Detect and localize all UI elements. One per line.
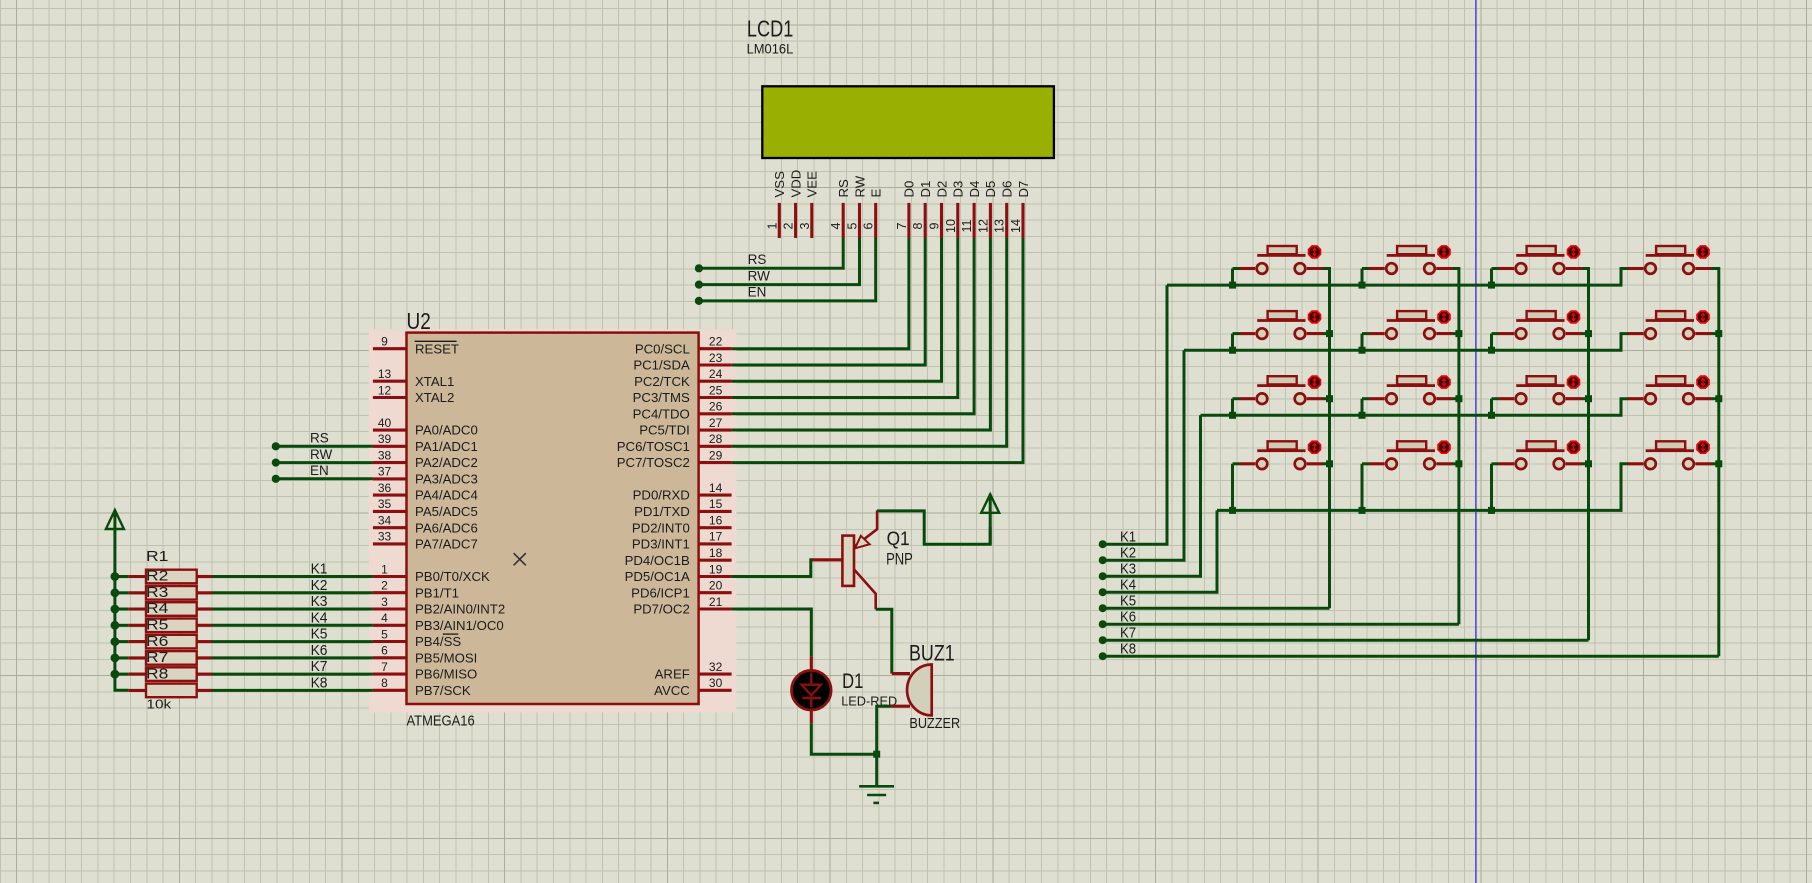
U2 pin 2 PB1/T1	[373, 591, 407, 594]
junction row 3 col 3	[1488, 412, 1495, 419]
svg-text:PD3/INT1: PD3/INT1	[632, 537, 690, 552]
svg-text:D5: D5	[983, 181, 998, 198]
wire RW to U2	[276, 461, 373, 464]
operate icon SW11	[1309, 246, 1321, 258]
junction row 2 col 3	[1488, 347, 1495, 354]
U2 pin 15 PD1/TXD	[699, 510, 732, 513]
wire keypad row 2	[1184, 334, 1628, 351]
svg-text:RS: RS	[748, 252, 767, 267]
U2 pin 27 PC5/TDI	[699, 429, 732, 432]
junction row 4 col 3	[1488, 507, 1495, 514]
operate icon SW41	[1309, 441, 1321, 453]
junction col 1 row 4	[1326, 460, 1333, 467]
svg-text:K2: K2	[1120, 545, 1136, 562]
wire K4 to U2	[212, 624, 373, 627]
push button SW33	[1527, 376, 1556, 384]
svg-text:9: 9	[381, 335, 388, 349]
junction ground node	[873, 751, 880, 758]
svg-text:K8: K8	[311, 674, 328, 691]
svg-text:7: 7	[381, 660, 388, 674]
junction row 1 col 1	[1229, 282, 1236, 289]
U2 pin 22 PC0/SCL	[699, 347, 732, 350]
svg-text:XTAL1: XTAL1	[415, 374, 454, 389]
wire join col 1 row 3	[1323, 397, 1330, 400]
svg-text:PC2/TCK: PC2/TCK	[634, 374, 690, 389]
wire drop row 1 col 1	[1231, 269, 1234, 286]
junction col 4 row 3	[1715, 395, 1722, 402]
wire drop row 3 col 3	[1490, 399, 1493, 416]
svg-text:D1: D1	[842, 670, 863, 693]
junction row 3 col 1	[1229, 412, 1236, 419]
wire D3 to PC3	[732, 238, 958, 398]
wire join col 4 row 4	[1712, 462, 1719, 465]
resistor R5	[115, 640, 129, 643]
wire join col 1 row 2	[1323, 332, 1330, 335]
operate icon SW12	[1438, 246, 1450, 258]
svg-text:K7: K7	[311, 658, 328, 675]
svg-text:K4: K4	[311, 609, 328, 626]
svg-text:K2: K2	[311, 577, 328, 594]
svg-text:PA4/ADC4: PA4/ADC4	[415, 488, 478, 503]
svg-text:PB6/MISO: PB6/MISO	[415, 667, 477, 682]
wire join col 3 row 4	[1582, 462, 1589, 465]
svg-text:PB7/SCK: PB7/SCK	[415, 683, 471, 698]
wire keypad column 4	[1712, 269, 1719, 657]
resistor R6	[115, 656, 129, 659]
U2 pin 24 PC2/TCK	[699, 380, 732, 383]
svg-text:PB4/SS: PB4/SS	[415, 634, 461, 649]
operate icon SW42	[1438, 441, 1450, 453]
svg-text:28: 28	[709, 432, 723, 446]
svg-text:R5: R5	[146, 617, 168, 634]
U2 pin 37 PA3/ADC3	[373, 477, 407, 480]
wire K5 keypad	[1103, 607, 1330, 610]
U2 pin 3 PB2/AIN0/INT2	[373, 607, 407, 610]
terminal dot RW left	[272, 459, 280, 467]
svg-text:BUZZER: BUZZER	[909, 716, 960, 732]
power symbol VCC left	[106, 510, 124, 529]
U2 pin 29 PC7/TOSC2	[699, 461, 732, 464]
terminal dot K7	[1099, 636, 1107, 644]
operate icon SW31	[1309, 376, 1321, 388]
U2 pin 17 PD3/INT1	[699, 542, 732, 545]
svg-text:12: 12	[378, 383, 392, 397]
U2 pin 13 XTAL1	[373, 380, 407, 383]
svg-text:13: 13	[993, 219, 1007, 233]
svg-text:PA0/ADC0: PA0/ADC0	[415, 423, 478, 438]
svg-text:RW: RW	[852, 175, 867, 197]
svg-text:D2: D2	[934, 181, 949, 198]
junction col 3 row 3	[1585, 395, 1592, 402]
operate icon SW43	[1568, 441, 1580, 453]
svg-text:32: 32	[709, 660, 723, 674]
svg-text:14: 14	[709, 481, 723, 495]
U2 pin 5 PB4/SS	[373, 640, 407, 643]
terminal dot K3	[1099, 572, 1107, 580]
svg-text:PD0/RXD: PD0/RXD	[633, 488, 690, 503]
svg-text:R4: R4	[146, 600, 168, 617]
svg-text:R1: R1	[146, 548, 168, 565]
terminal dot K5	[1099, 604, 1107, 612]
svg-text:K7: K7	[1120, 625, 1136, 642]
svg-text:D3: D3	[951, 181, 966, 198]
wire K3 to U2	[212, 608, 373, 611]
U2 pin 12 XTAL2	[373, 396, 407, 399]
svg-text:K4: K4	[1120, 577, 1136, 594]
wire K6 keypad	[1103, 623, 1459, 626]
svg-text:R8: R8	[146, 665, 168, 682]
LED D1 body	[792, 670, 832, 710]
wire Q1 collector to buzzer	[876, 609, 892, 673]
svg-text:BUZ1: BUZ1	[909, 640, 955, 665]
svg-text:D4: D4	[967, 181, 982, 198]
svg-text:R6: R6	[146, 633, 168, 650]
wire drop row 1 col 2	[1361, 269, 1364, 286]
svg-text:22: 22	[709, 335, 723, 349]
svg-text:AVCC: AVCC	[654, 683, 690, 698]
wire drop row 3 col 2	[1361, 399, 1364, 416]
U2 pin 30 AVCC	[699, 689, 732, 692]
wire K5 to U2	[212, 640, 373, 643]
svg-text:R7: R7	[146, 649, 168, 666]
LCD1 pin 9 D2	[940, 203, 943, 238]
svg-text:10k: 10k	[146, 697, 172, 711]
wire U2 pin19 to Q1 base	[732, 560, 813, 577]
junction row 3 col 2	[1359, 412, 1366, 419]
wire K7 to U2	[212, 673, 373, 676]
svg-text:PD6/ICP1: PD6/ICP1	[631, 585, 690, 600]
wire D1 to PC1	[732, 238, 926, 365]
LCD1 pin 5 RW	[858, 203, 861, 238]
U2 pin 14 PD0/RXD	[699, 494, 732, 497]
wire BUZ1 to ground	[877, 706, 892, 754]
svg-text:33: 33	[378, 530, 392, 544]
junction row 2 col 1	[1229, 347, 1236, 354]
svg-text:XTAL2: XTAL2	[415, 390, 454, 405]
LCD1 pin 14 D7	[1021, 203, 1024, 238]
LCD1 pin 13 D6	[1005, 203, 1008, 238]
svg-text:D1: D1	[918, 181, 933, 198]
U2 pin 19 PD5/OC1A	[699, 575, 732, 578]
svg-text:EN: EN	[310, 463, 329, 478]
wire drop row 4 col 1	[1231, 464, 1234, 511]
wire D1 to ground junction	[811, 723, 876, 754]
wire K2 to U2	[212, 591, 373, 594]
LCD1 pin 2 VDD	[794, 203, 797, 238]
U2 pin 36 PA4/ADC4	[373, 494, 407, 497]
wire join col 2 row 4	[1453, 462, 1459, 465]
svg-text:9: 9	[928, 222, 942, 229]
svg-text:26: 26	[709, 400, 723, 414]
svg-text:K3: K3	[311, 593, 328, 610]
LCD1 pin 6 E	[874, 203, 877, 238]
wire K6 to U2	[212, 656, 373, 659]
wire K1 to U2	[212, 575, 373, 578]
svg-text:K8: K8	[1120, 641, 1136, 658]
wire D7 to PC7	[732, 238, 1023, 463]
U2 pin 39 PA1/ADC1	[373, 445, 407, 448]
svg-text:10: 10	[944, 219, 958, 233]
junction col 1 row 2	[1326, 330, 1333, 337]
push button SW44	[1656, 441, 1685, 449]
svg-text:11: 11	[960, 219, 974, 232]
U2 no-model cross	[514, 553, 526, 565]
operate icon SW24	[1697, 311, 1709, 323]
svg-text:30: 30	[709, 676, 723, 690]
svg-text:15: 15	[709, 497, 723, 511]
svg-text:39: 39	[378, 432, 392, 446]
svg-text:PD1/TXD: PD1/TXD	[634, 504, 690, 519]
svg-text:PC5/TDI: PC5/TDI	[639, 423, 690, 438]
resistor R3	[115, 608, 129, 611]
U2 pin 7 PB6/MISO	[373, 673, 407, 676]
svg-text:PD2/INT0: PD2/INT0	[632, 520, 690, 535]
wire LCD RW	[699, 238, 860, 285]
wire keypad column 3	[1582, 269, 1589, 641]
svg-text:5: 5	[846, 222, 860, 229]
transistor Q1 emitter arrow	[855, 536, 870, 549]
U2 pin 21 PD7/OC2	[699, 607, 732, 610]
LED D1 anode stub	[810, 656, 813, 670]
wire join col 1 row 4	[1323, 462, 1330, 465]
operate icon SW32	[1438, 376, 1450, 388]
wire K8 to U2	[212, 689, 373, 692]
U2 pin 28 PC6/TOSC1	[699, 445, 732, 448]
wire drop row 4 col 2	[1361, 464, 1364, 511]
wire join col 3 row 3	[1582, 397, 1589, 400]
U2 pin 35 PA5/ADC5	[373, 510, 407, 513]
transistor Q1 base stub	[812, 558, 842, 561]
U2 pin 34 PA6/ADC6	[373, 526, 407, 529]
U2 pin 6 PB5/MOSI	[373, 656, 407, 659]
junction row 4 col 1	[1229, 507, 1236, 514]
wire keypad column 1	[1323, 269, 1330, 609]
svg-text:24: 24	[709, 367, 723, 381]
U2 selection halo	[369, 329, 737, 712]
LED D1 cathode stub	[810, 711, 813, 724]
U2 pin 33 PA7/ADC7	[373, 542, 407, 545]
push button SW12	[1397, 246, 1426, 254]
svg-text:PD5/OC1A: PD5/OC1A	[625, 569, 690, 584]
wire D0 to PC0	[732, 238, 909, 349]
svg-text:36: 36	[378, 481, 392, 495]
push button SW42	[1397, 441, 1426, 449]
wire EN to U2	[276, 477, 373, 480]
svg-text:38: 38	[378, 448, 392, 462]
U2 pin 25 PC3/TMS	[699, 396, 732, 399]
svg-text:40: 40	[378, 416, 392, 430]
U2 pin 40 PA0/ADC0	[373, 429, 407, 432]
svg-text:7: 7	[895, 222, 909, 229]
wire drop row 1 col 3	[1490, 269, 1493, 286]
wire D4 to PC4	[732, 238, 975, 414]
wire join col 2 row 3	[1453, 397, 1459, 400]
svg-text:PC7/TOSC2: PC7/TOSC2	[617, 455, 690, 470]
transistor Q1 emitter	[854, 510, 877, 547]
wire power bus	[115, 529, 129, 690]
terminal dot K4	[1099, 588, 1107, 596]
svg-text:PB5/MOSI: PB5/MOSI	[415, 650, 477, 665]
svg-text:D7: D7	[1016, 181, 1031, 198]
svg-text:PB0/T0/XCK: PB0/T0/XCK	[415, 569, 490, 584]
wire K7 keypad	[1103, 639, 1589, 642]
push button SW23	[1527, 311, 1556, 319]
svg-text:PD7/OC2: PD7/OC2	[633, 602, 689, 617]
resistor R7	[115, 673, 129, 676]
wire U2 pin21 to D1	[732, 609, 812, 656]
svg-text:R3: R3	[146, 584, 168, 601]
svg-text:PC1/SDA: PC1/SDA	[633, 358, 690, 373]
wire K2 keypad	[1103, 350, 1184, 560]
terminal dot RW	[695, 281, 703, 289]
svg-text:D6: D6	[1000, 181, 1015, 198]
wire LCD EN	[699, 238, 876, 301]
push button SW21	[1268, 311, 1297, 319]
wire D5 to PC5	[732, 238, 991, 430]
wire join col 2 row 2	[1453, 332, 1459, 335]
junction col 3 row 2	[1585, 330, 1592, 337]
svg-text:17: 17	[709, 530, 723, 544]
resistor R1	[115, 575, 129, 578]
wire LCD RS	[699, 238, 843, 268]
push button SW31	[1268, 376, 1297, 384]
svg-text:8: 8	[911, 222, 925, 229]
svg-text:PNP: PNP	[886, 550, 913, 568]
operate icon SW44	[1697, 441, 1709, 453]
LCD1 pin 11 D4	[973, 203, 976, 238]
svg-text:E: E	[869, 189, 884, 198]
resistor R8	[129, 689, 146, 692]
svg-text:12: 12	[976, 219, 990, 233]
svg-text:PC3/TMS: PC3/TMS	[633, 390, 690, 405]
svg-text:4: 4	[829, 222, 843, 229]
wire drop row 2 col 1	[1231, 334, 1234, 351]
terminal dot K6	[1099, 620, 1107, 628]
junction col 4 row 4	[1715, 460, 1722, 467]
wire keypad row 4	[1217, 464, 1628, 511]
svg-text:3: 3	[798, 222, 812, 229]
wire K3 keypad	[1103, 415, 1201, 576]
push button SW32	[1397, 376, 1426, 384]
svg-text:1: 1	[381, 562, 388, 576]
svg-text:PA3/ADC3: PA3/ADC3	[415, 472, 478, 487]
wire join col 4 row 3	[1712, 397, 1719, 400]
wire K8 keypad	[1103, 655, 1719, 658]
svg-text:PA6/ADC6: PA6/ADC6	[415, 520, 478, 535]
svg-text:PB1/T1: PB1/T1	[415, 585, 459, 600]
svg-text:RS: RS	[310, 431, 329, 446]
wire keypad row 3	[1201, 399, 1629, 416]
terminal dot EN	[695, 297, 703, 305]
terminal dot RS	[695, 264, 703, 272]
svg-text:29: 29	[709, 448, 723, 462]
push button SW11	[1268, 246, 1297, 254]
svg-text:K1: K1	[1120, 529, 1136, 546]
terminal dot RS left	[272, 442, 280, 450]
svg-text:25: 25	[709, 383, 723, 397]
wire K1 keypad	[1103, 285, 1167, 544]
svg-text:RS: RS	[836, 179, 851, 198]
svg-text:D0: D0	[902, 181, 917, 198]
U2 pin 23 PC1/SDA	[699, 363, 732, 366]
wire D6 to PC6	[732, 238, 1007, 446]
svg-text:20: 20	[709, 579, 723, 593]
LCD1 pin 12 D5	[989, 203, 992, 238]
svg-text:PB2/AIN0/INT2: PB2/AIN0/INT2	[415, 602, 505, 617]
svg-text:EN: EN	[748, 285, 767, 300]
svg-text:5: 5	[381, 627, 388, 641]
buzzer BUZ1 pin stubs	[892, 672, 910, 675]
svg-text:LCD1: LCD1	[747, 15, 793, 41]
svg-text:ATMEGA16: ATMEGA16	[407, 714, 475, 730]
push button SW34	[1656, 376, 1685, 384]
microcontroller U2 body	[407, 333, 699, 704]
junction row 4 col 2	[1359, 507, 1366, 514]
wire join col 3 row 2	[1582, 332, 1589, 335]
operate icon SW33	[1568, 376, 1580, 388]
LCD1 pin 10 D3	[956, 203, 959, 238]
svg-text:35: 35	[378, 497, 392, 511]
wire D2 to PC2	[732, 238, 942, 381]
svg-text:2: 2	[782, 222, 796, 229]
LCD1 pin 3 VEE	[810, 203, 813, 238]
svg-text:VSS: VSS	[772, 171, 787, 198]
svg-text:VDD: VDD	[788, 170, 803, 198]
push button SW24	[1656, 311, 1685, 319]
svg-text:4: 4	[381, 611, 388, 625]
U2 pin 1 PB0/T0/XCK	[373, 575, 407, 578]
wire Q1 emitter to power	[877, 511, 990, 544]
push button SW13	[1527, 246, 1556, 254]
svg-text:RW: RW	[310, 447, 333, 462]
svg-text:18: 18	[709, 546, 723, 560]
svg-text:27: 27	[709, 416, 723, 430]
wire join col 4 row 2	[1712, 332, 1719, 335]
operate icon SW23	[1568, 311, 1580, 323]
operate icon SW14	[1697, 246, 1709, 258]
U2 pin 8 PB7/SCK	[373, 689, 407, 692]
LCD1 pin 7 D0	[907, 203, 910, 238]
operate icon SW21	[1309, 311, 1321, 323]
svg-text:PA1/ADC1: PA1/ADC1	[415, 439, 478, 454]
LCD1 pin 4 RS	[842, 203, 845, 238]
sheet divider line	[1475, 0, 1477, 883]
svg-text:RESET: RESET	[415, 341, 459, 356]
power symbol VCC Q1	[981, 494, 999, 513]
wire keypad row 1	[1167, 269, 1628, 286]
svg-text:14: 14	[1009, 219, 1023, 233]
svg-text:PC6/TOSC1: PC6/TOSC1	[617, 439, 690, 454]
transistor Q1 collector	[854, 569, 876, 609]
svg-text:K6: K6	[1120, 609, 1136, 626]
svg-text:R2: R2	[146, 568, 168, 585]
svg-text:PC0/SCL: PC0/SCL	[635, 341, 690, 356]
svg-text:21: 21	[709, 595, 723, 609]
junction row 1 col 3	[1488, 282, 1495, 289]
wire to ground symbol	[875, 754, 878, 786]
transistor Q1 base bar	[842, 536, 854, 586]
resistor R2	[115, 591, 129, 594]
resistor R4	[115, 624, 129, 627]
svg-text:19: 19	[709, 562, 723, 576]
U2 pin 20 PD6/ICP1	[699, 591, 732, 594]
terminal dot K8	[1099, 652, 1107, 660]
push button SW14	[1656, 246, 1685, 254]
svg-text:PA7/ADC7: PA7/ADC7	[415, 537, 478, 552]
svg-text:K6: K6	[311, 642, 328, 659]
svg-text:Q1: Q1	[887, 528, 910, 550]
svg-text:37: 37	[378, 465, 392, 479]
